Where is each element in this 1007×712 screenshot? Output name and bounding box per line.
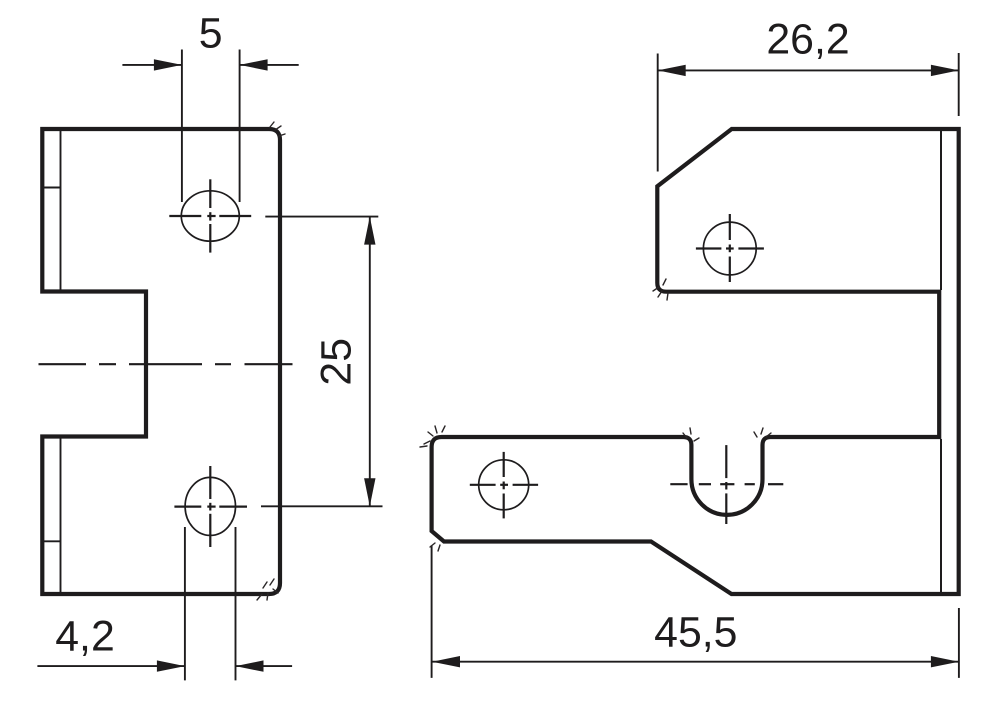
svg-text:4,2: 4,2 [55,612,115,660]
svg-text:25: 25 [312,338,360,386]
svg-text:26,2: 26,2 [766,15,849,63]
svg-text:45,5: 45,5 [654,608,737,656]
svg-text:5: 5 [199,10,223,58]
